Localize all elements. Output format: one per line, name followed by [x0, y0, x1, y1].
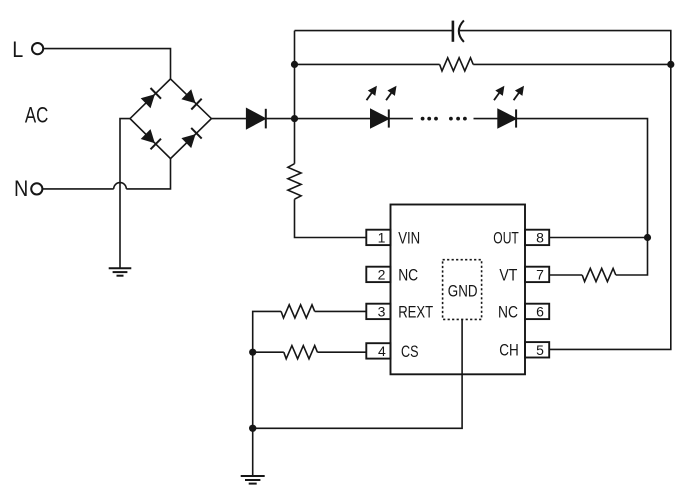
- svg-text:2: 2: [378, 267, 386, 283]
- wire CS pin to R5: [317, 351, 366, 353]
- LED row wire: [295, 118, 371, 120]
- wire R4 to ground bus: [253, 311, 281, 475]
- wire bridge frame: [130, 79, 211, 159]
- wire REXT pin to R4: [315, 310, 367, 312]
- svg-text:4: 4: [378, 343, 386, 359]
- GND pad dashed box: [443, 260, 482, 320]
- wire R3 to VT pin: [549, 274, 583, 276]
- junction: OUT / LED return: [644, 234, 651, 241]
- wire C1 to right bus and down to CH pin: [460, 31, 671, 350]
- svg-text:VIN: VIN: [398, 230, 420, 248]
- wire R1 to VIN: [295, 199, 367, 237]
- ground (main): [241, 476, 265, 484]
- wire ellipsis to LED2: [474, 118, 499, 120]
- resistor R5 (CS): [284, 346, 318, 359]
- diode bridge D2 (top-right side): [181, 89, 201, 109]
- svg-text:L: L: [12, 37, 23, 62]
- diode D5 (series): [247, 109, 265, 129]
- svg-text:7: 7: [536, 267, 544, 283]
- svg-text:NC: NC: [398, 267, 418, 285]
- pin box 5: [525, 342, 549, 357]
- wire R2 to right bus: [473, 63, 671, 65]
- terminal N: [31, 183, 42, 194]
- ellipsis dots (LED string continuation): [421, 117, 467, 121]
- LED arrows: [367, 86, 525, 101]
- pin box 3: [366, 304, 390, 319]
- wire GND pad to ground node: [253, 319, 462, 428]
- svg-text:1: 1: [378, 230, 386, 246]
- svg-text:5: 5: [536, 342, 544, 358]
- LED1: [371, 110, 389, 128]
- wire N to hop: [43, 188, 114, 190]
- arrow LED1 b: [386, 91, 393, 100]
- svg-text:NC: NC: [498, 304, 518, 322]
- svg-text:N: N: [14, 176, 28, 201]
- svg-text:CS: CS: [401, 343, 419, 361]
- junction: GND return node: [249, 425, 256, 432]
- resistor R3 (VT): [582, 268, 616, 281]
- pin box 8: [525, 230, 549, 245]
- OUT wire: [549, 237, 648, 239]
- junction: CS node: [249, 349, 256, 356]
- diode bridge D1 (left-top side): [141, 88, 161, 108]
- svg-text:3: 3: [378, 304, 386, 320]
- wire node to R2 (second row): [295, 63, 440, 65]
- resistor R1 (vertical): [288, 164, 301, 200]
- junction: left bus / LED row (rectified DC node): [291, 115, 298, 122]
- resistor R4 (REXT): [281, 305, 315, 318]
- junction: left bus / R2 row: [291, 61, 298, 68]
- wire bridge left corner to ground: [120, 119, 130, 268]
- pin box 4: [366, 343, 390, 358]
- IC U1 (LED driver) body: [391, 205, 526, 375]
- wire L to bridge top: [43, 49, 170, 79]
- arrow LED2 b: [514, 91, 521, 100]
- arrow LED2 a: [494, 91, 501, 100]
- wire LED1 to ellipsis: [389, 118, 413, 120]
- wire hop over ground wire: [114, 183, 127, 189]
- svg-text:OUT: OUT: [493, 230, 519, 248]
- pin box 1: [366, 230, 390, 245]
- ground (bridge): [109, 268, 132, 275]
- resistor R2 (horizontal top): [440, 58, 474, 71]
- svg-text:6: 6: [536, 304, 544, 320]
- wire R5 to CS node: [253, 351, 284, 353]
- wire node to C1 (top row): [295, 30, 453, 32]
- svg-text:GND: GND: [448, 283, 478, 301]
- arrow LED1 a: [367, 91, 374, 100]
- pin box 7: [525, 267, 549, 282]
- LED2: [498, 110, 516, 128]
- svg-text:CH: CH: [499, 341, 519, 359]
- diode bridge D3 (bottom-left side): [141, 129, 161, 149]
- wire bridge right corner to series diode: [211, 118, 246, 120]
- svg-text:REXT: REXT: [398, 304, 433, 322]
- diode bridge D4 (bottom-right side): [181, 128, 201, 148]
- capacitor C1 plate: [452, 21, 455, 42]
- wire diode to node: [266, 118, 295, 120]
- junction: right bus / R2 row: [667, 61, 674, 68]
- pin box 6: [525, 304, 549, 319]
- pin box 2: [366, 267, 390, 282]
- svg-text:VT: VT: [499, 267, 517, 285]
- terminal L: [32, 43, 43, 54]
- wire LED2 to mid vertical: [516, 119, 647, 275]
- svg-text:AC: AC: [25, 102, 49, 127]
- wire hop to bridge bottom: [126, 159, 170, 189]
- capacitor C1 curved plate: [459, 20, 464, 42]
- svg-text:8: 8: [536, 230, 544, 246]
- wire left vertical bus: [294, 31, 296, 164]
